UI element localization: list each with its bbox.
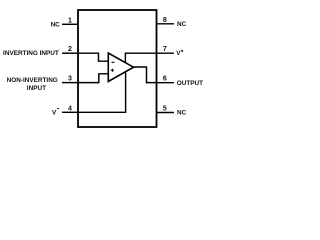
svg-text:V: V [176, 50, 181, 57]
svg-text:V: V [52, 110, 57, 117]
svg-text:1: 1 [68, 17, 72, 24]
svg-text:3: 3 [68, 76, 72, 83]
svg-text:INPUT: INPUT [27, 85, 46, 92]
svg-text:4: 4 [68, 105, 72, 112]
svg-text:NC: NC [177, 110, 187, 117]
svg-text:8: 8 [163, 17, 167, 24]
svg-text:7: 7 [163, 46, 167, 53]
svg-text:5: 5 [163, 106, 167, 113]
svg-text:NC: NC [51, 22, 61, 29]
svg-text:NON-INVERTING: NON-INVERTING [7, 77, 58, 84]
svg-text:OUTPUT: OUTPUT [177, 80, 203, 87]
svg-text:NC: NC [177, 21, 187, 28]
svg-text:INVERTING INPUT: INVERTING INPUT [3, 50, 59, 57]
svg-text:2: 2 [68, 46, 72, 53]
svg-text:6: 6 [163, 76, 167, 83]
